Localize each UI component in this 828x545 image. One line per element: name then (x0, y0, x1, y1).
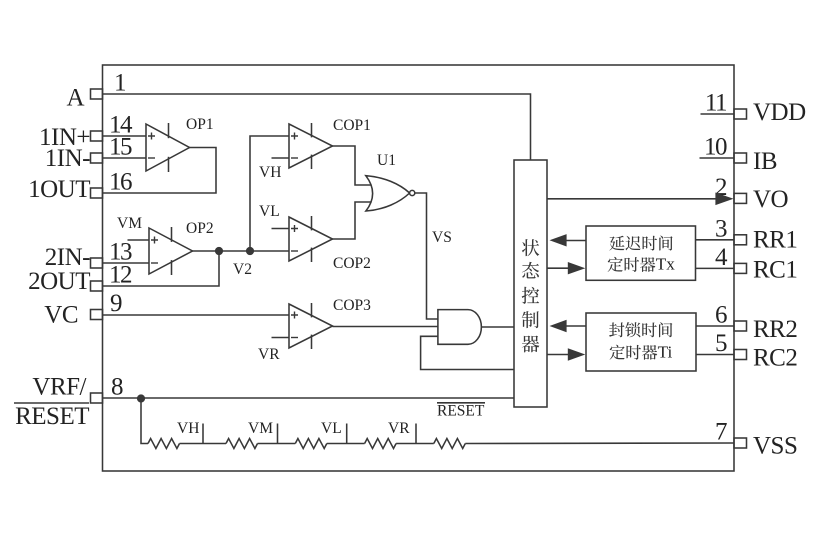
svg-text:3: 3 (715, 215, 727, 242)
svg-text:VR: VR (388, 420, 410, 437)
wire R5 to pin 7 VSS (465, 442, 734, 445)
wire VR stub to COP3 - input (272, 337, 290, 339)
svg-text:VL: VL (259, 203, 280, 220)
svg-text:RC1: RC1 (753, 257, 797, 284)
wire R1 to R2 (180, 443, 227, 445)
wire pin1 A to state controller top (103, 94, 531, 160)
wire pin 13 to OP2 - input (103, 262, 150, 264)
svg-text:VH: VH (259, 164, 281, 181)
svg-text:A: A (66, 85, 84, 112)
svg-text:11: 11 (705, 90, 726, 117)
wire OP2 output node V2 (193, 250, 290, 252)
wire AND gate output to state controller (481, 326, 514, 328)
state controller text 态 (522, 262, 539, 279)
svg-text:Tx: Tx (656, 255, 675, 274)
junction dot V2 (246, 247, 254, 255)
svg-text:1OUT: 1OUT (28, 176, 90, 203)
svg-text:COP2: COP2 (333, 255, 371, 272)
svg-text:OP2: OP2 (186, 220, 214, 237)
state controller text 控 (522, 287, 539, 304)
comparator COP1 (289, 123, 333, 169)
wire VM stub to OP2 + input (128, 239, 150, 241)
arrow state controller to lockout timer (547, 354, 568, 356)
svg-text:OP1: OP1 (186, 116, 214, 133)
comparator COP3 (289, 303, 333, 349)
pin box 5 (734, 350, 747, 360)
wire lockout timer to pin 6 RR2 (696, 325, 734, 327)
pin box 1 (91, 89, 103, 99)
wire R3 to R4 (327, 443, 365, 445)
svg-text:1: 1 (114, 70, 125, 97)
wire delay timer to pin 3 RR1 (696, 239, 735, 241)
wire V2 to COP1 + input (250, 136, 289, 251)
resistor R3 (295, 439, 327, 449)
pin box 13 (91, 258, 103, 268)
wire pin 10 IB stub (700, 157, 735, 159)
pin box 16 (91, 188, 103, 198)
svg-text:Ti: Ti (658, 342, 673, 361)
pin box 10 (734, 153, 747, 163)
svg-text:COP3: COP3 (333, 297, 371, 314)
pin box 3 (734, 235, 747, 245)
wire lockout timer to pin 5 RC2 (696, 354, 734, 356)
pin box 12 (91, 281, 103, 291)
wire VH stub to COP1 - input (272, 157, 290, 159)
wire COP3 output to AND gate middle input (333, 326, 439, 328)
resistor R2 (226, 439, 258, 449)
wire delay timer to pin 4 RC1 (696, 267, 735, 269)
state controller text 状 (522, 239, 539, 256)
svg-text:7: 7 (715, 419, 727, 446)
svg-text:9: 9 (110, 290, 122, 317)
svg-text:VM: VM (248, 420, 273, 437)
svg-text:VRF/: VRF/ (32, 374, 86, 401)
wire R2 to R3 (258, 443, 296, 445)
wire pin 8 VRF/RESET to state controller (103, 397, 515, 399)
state controller box (状态控制器) (514, 160, 547, 407)
svg-text:VSS: VSS (753, 433, 797, 460)
svg-text:12: 12 (109, 262, 132, 289)
pin box 11 (734, 109, 747, 119)
svg-text:U1: U1 (377, 152, 396, 169)
svg-text:1IN-: 1IN- (45, 145, 90, 172)
wire AND gate feedback input from state controller (421, 336, 514, 369)
svg-text:VL: VL (321, 420, 342, 437)
svg-text:RC2: RC2 (753, 345, 797, 372)
wire pin 11 VDD stub (701, 113, 735, 115)
wire state controller to pin 2 VO (arrow) (547, 198, 717, 200)
pin box 4 (734, 263, 747, 273)
svg-text:RESET: RESET (15, 403, 89, 430)
svg-text:2OUT: 2OUT (28, 268, 90, 295)
svg-text:6: 6 (715, 302, 727, 329)
pin box 9 (91, 310, 103, 320)
svg-text:V2: V2 (233, 261, 252, 278)
op-amp OP1 (146, 123, 190, 172)
tap VR tick (415, 424, 417, 444)
wire VL stub to COP2 + input (272, 228, 290, 230)
wire R4 to R5 (396, 443, 434, 445)
wire pin 9 VC to COP3 + input (103, 314, 290, 316)
wire U1 output VS to AND gate (415, 193, 438, 319)
svg-text:10: 10 (704, 134, 727, 161)
arrow delay timer to state controller (566, 240, 586, 242)
pin box 6 (734, 321, 747, 331)
svg-text:IB: IB (753, 148, 777, 175)
pin box 7 (734, 438, 747, 448)
svg-text:RESET: RESET (437, 403, 485, 420)
svg-text:COP1: COP1 (333, 117, 371, 134)
delay timer box 延迟时间定时器Tx (586, 226, 696, 280)
pin box 2 (734, 193, 747, 203)
svg-text:VM: VM (117, 215, 142, 232)
svg-text:VR: VR (258, 346, 280, 363)
pin box 8 (91, 393, 103, 403)
wire pin 14 to OP1 + input (103, 135, 147, 137)
resistor R4 (365, 439, 397, 449)
wire COP2 output to U1 bottom input (333, 202, 372, 239)
wire OP1 output to pin 16 (1OUT) (103, 148, 217, 194)
svg-text:VDD: VDD (753, 99, 806, 126)
svg-text:VS: VS (432, 229, 452, 246)
state controller text 制 (522, 311, 539, 328)
wire OP2 feedback to pin 12 (2OUT) (103, 251, 220, 286)
NOR gate U1 (366, 176, 415, 211)
svg-text:VC: VC (44, 302, 78, 329)
comparator COP2 (289, 216, 333, 262)
pin box 15 (91, 153, 103, 163)
state controller text 器 (522, 336, 540, 353)
svg-text:VH: VH (177, 420, 199, 437)
svg-text:2IN-: 2IN- (45, 244, 90, 271)
op-amp OP2 (149, 227, 193, 275)
svg-text:RR2: RR2 (753, 316, 797, 343)
junction dot OP2 output (215, 247, 223, 255)
resistor R1 (148, 439, 180, 449)
svg-text:5: 5 (715, 330, 727, 357)
lockout timer box 封锁时间定时器Ti (586, 313, 696, 371)
resistor R5 (434, 439, 466, 449)
svg-text:16: 16 (109, 169, 132, 196)
wire pin 15 to OP1 - input (103, 157, 147, 159)
pin box 14 (91, 131, 103, 141)
AND gate (438, 310, 481, 345)
svg-text:8: 8 (111, 374, 123, 401)
IC outer boundary (103, 65, 735, 471)
tap VM tick (277, 424, 279, 444)
svg-text:RR1: RR1 (753, 227, 797, 254)
tap VH tick (202, 424, 204, 444)
svg-text:VO: VO (753, 186, 789, 213)
wire COP1 output to U1 top input (333, 146, 372, 185)
tap VL tick (346, 424, 348, 444)
junction dot pin 8 (137, 394, 145, 402)
arrow state controller to delay timer (547, 267, 568, 269)
svg-text:15: 15 (109, 134, 132, 161)
arrow lockout timer to state controller (566, 325, 586, 327)
wire pin8 junction down to resistor chain (141, 399, 148, 444)
